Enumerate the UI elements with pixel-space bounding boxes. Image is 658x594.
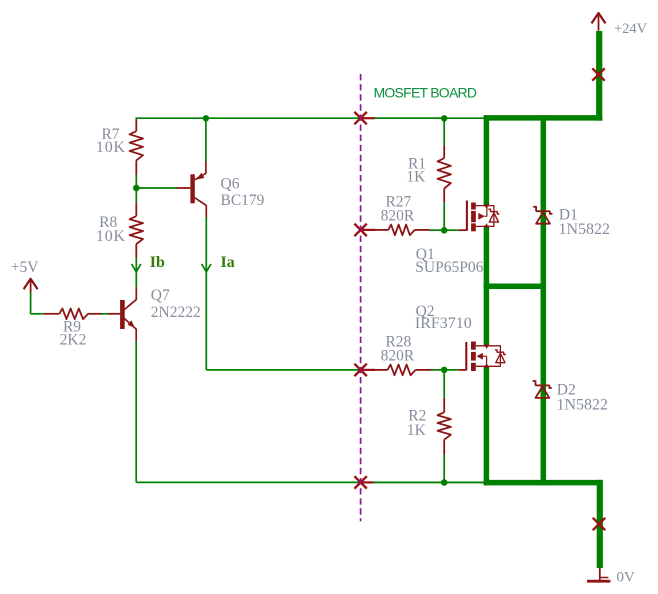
resistor R2 <box>443 398 445 413</box>
svg-text:Ib: Ib <box>150 254 165 271</box>
svg-text:1N5822: 1N5822 <box>559 221 611 238</box>
svg-text:Ia: Ia <box>221 254 235 271</box>
wire R8 bottom to Q7 collector (Ib) <box>135 257 137 287</box>
svg-text:Q7: Q7 <box>151 287 170 304</box>
wire Q6 emitter to top rail <box>205 118 207 161</box>
wire top rail <box>137 117 485 119</box>
svg-text:1K: 1K <box>406 168 426 185</box>
wire +5V drop <box>30 292 32 314</box>
wire R28 to node C <box>431 369 445 371</box>
wire Q7 emitter down <box>135 341 137 483</box>
node D junction R2 / bottom rail <box>441 479 448 486</box>
svg-text:1N5822: 1N5822 <box>557 397 609 414</box>
node A junction R7 R8 Q6-base <box>133 185 140 192</box>
connector X6 on 0V wire <box>593 518 605 530</box>
resistor R28 <box>375 369 388 371</box>
wire Q6 collector down (Ia) <box>205 217 207 370</box>
diode D2 1N5822 <box>535 384 549 386</box>
current arrow Ib <box>132 264 141 272</box>
wire X1 stub to R1 rail <box>375 117 445 119</box>
resistor R9 <box>44 313 60 315</box>
svg-text:2K2: 2K2 <box>60 331 87 348</box>
power +24V symbol <box>592 13 606 23</box>
connector X1 top rail <box>354 112 366 124</box>
wire R7 bottom to node A <box>135 174 137 188</box>
svg-text:+24V: +24V <box>614 21 648 37</box>
wire R27 to node B <box>430 229 445 231</box>
wire node A to R8 <box>135 188 137 202</box>
svg-text:IRF3710: IRF3710 <box>415 315 472 332</box>
resistor R8 <box>135 202 137 216</box>
wire thick right bar <box>541 115 547 485</box>
connector X5 on +24V wire <box>592 68 604 80</box>
wire thick top bar <box>484 115 603 121</box>
svg-text:10K: 10K <box>96 139 126 156</box>
wire thick bottom bar <box>484 480 603 486</box>
node junction Q6 emitter / top rail <box>203 115 209 121</box>
wire thick left bar segment Q2 source to bottom <box>484 366 490 485</box>
wire thick 0V vertical <box>597 480 603 568</box>
diode D1 1N5822 <box>536 210 550 212</box>
connector X2 R27 row <box>354 224 366 236</box>
transistor Q2 IRF3710 N-MOSFET <box>459 342 506 372</box>
connector X3 R28 row <box>354 364 366 376</box>
wire R2 bottom to node D <box>443 454 445 482</box>
node B junction R1 R27 Q1-gate <box>441 227 448 234</box>
ground 0V symbol <box>599 568 601 581</box>
connector X4 bottom rail <box>354 476 366 488</box>
svg-text:+5V: +5V <box>11 259 39 276</box>
wire +5V corner to R9 <box>31 313 44 315</box>
wire node C to R2 <box>443 370 445 398</box>
wire node B to Q1 gate <box>444 229 459 231</box>
svg-text:MOSFET BOARD: MOSFET BOARD <box>374 84 477 100</box>
resistor R1 <box>443 145 445 158</box>
wire thick middle bar <box>484 283 546 289</box>
current arrow Ia <box>202 264 211 272</box>
wire thick left bar segment Q1 source side <box>484 115 490 206</box>
svg-text:0V: 0V <box>617 570 636 586</box>
resistor R7 <box>135 120 137 132</box>
wire thick +24V vertical <box>596 31 602 121</box>
wire R1 bottom to node B <box>443 203 445 231</box>
wire node A to Q6 base <box>136 187 177 189</box>
dashed board boundary line <box>360 74 362 521</box>
transistor Q6 BC179 <box>177 187 191 189</box>
wire Ia row to X2 <box>206 369 360 371</box>
transistor Q1 SUP65P06 P-MOSFET <box>459 201 499 232</box>
wire X4 stub to bottom rail right <box>373 481 484 483</box>
wire R7 top to rail <box>135 117 137 120</box>
resistor R27 <box>375 229 389 231</box>
wire R1 top <box>443 118 445 145</box>
transistor Q7 2N2222 <box>108 313 120 315</box>
svg-text:820R: 820R <box>381 347 415 364</box>
svg-text:SUP65P06: SUP65P06 <box>415 259 483 276</box>
node C junction R28 R2 Q2-gate <box>441 367 448 374</box>
wire node C to Q2 gate <box>444 369 459 371</box>
svg-text:1K: 1K <box>407 422 427 439</box>
svg-text:10K: 10K <box>96 228 126 245</box>
wire thick left bar segment Q1 drain to Q2 drain <box>484 226 490 346</box>
svg-text:BC179: BC179 <box>221 192 265 209</box>
svg-text:820R: 820R <box>381 208 415 225</box>
svg-text:Q6: Q6 <box>221 176 240 193</box>
power +5V symbol <box>24 279 38 289</box>
node junction R1 / top rail <box>441 115 447 121</box>
wire bottom rail <box>136 481 484 483</box>
wire R9 to Q7 base <box>101 313 108 315</box>
svg-text:2N2222: 2N2222 <box>151 304 201 321</box>
